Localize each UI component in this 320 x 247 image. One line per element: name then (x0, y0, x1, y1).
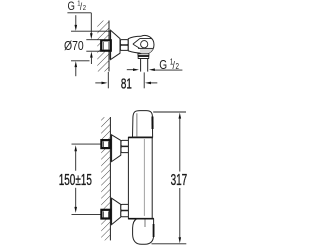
svg-text:81: 81 (121, 75, 132, 92)
svg-text:150±15: 150±15 (59, 170, 92, 188)
svg-text:2: 2 (83, 5, 86, 13)
svg-text:G: G (159, 58, 167, 72)
svg-text:G: G (68, 0, 75, 13)
svg-text:2: 2 (176, 62, 179, 71)
svg-text:317: 317 (171, 171, 188, 189)
svg-text:Ø70: Ø70 (64, 38, 84, 54)
